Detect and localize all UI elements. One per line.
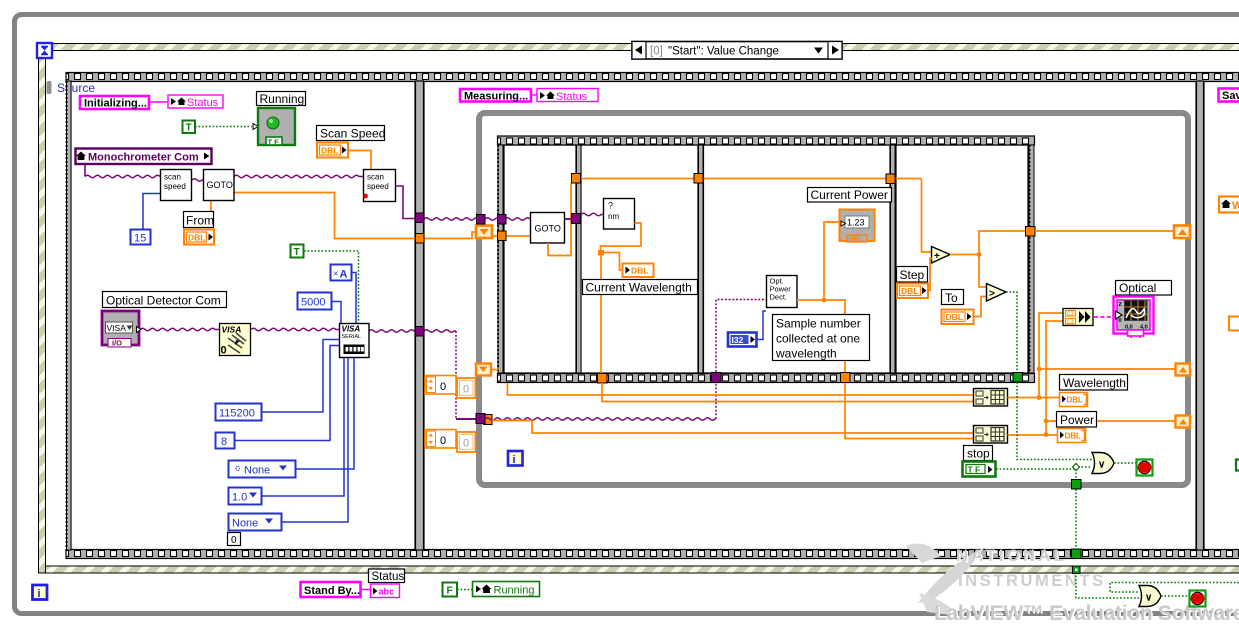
svg-text:VISA: VISA bbox=[107, 323, 127, 333]
wires inside inner loop: purple seq tunnel to GOTO2 bbox=[485, 218, 530, 221]
label Sample number bbox=[773, 315, 870, 361]
node OR 1 bbox=[1092, 453, 1114, 474]
wire GOTO2 orange out up to top rail bbox=[548, 183, 571, 256]
svg-text:INSTRUMENTS: INSTRUMENTS bbox=[958, 572, 1106, 590]
svg-text:DBL: DBL bbox=[188, 233, 205, 243]
control Optical Detector Com (VISA) bbox=[102, 311, 141, 348]
svg-text:VISA: VISA bbox=[222, 325, 242, 335]
svg-text:Optical Detector Com: Optical Detector Com bbox=[106, 294, 221, 308]
flat sequence inner: top band bbox=[498, 136, 1035, 145]
svg-text:T F: T F bbox=[968, 465, 981, 475]
svg-text:0: 0 bbox=[231, 535, 237, 546]
while loop (inner) bbox=[479, 113, 1188, 485]
wire Opt out to Current Power + down tunnel bbox=[797, 300, 845, 373]
svg-text:NATIONAL: NATIONAL bbox=[956, 547, 1067, 565]
wire GOTO 1 orange out to divider tunnel bbox=[234, 193, 416, 239]
wire T2 to VISA serial top bbox=[304, 251, 359, 323]
event selector label "[0] Start: Value Change" bbox=[632, 42, 842, 60]
indicator DBL (current wavelength) bbox=[623, 264, 654, 278]
flat sequence outer: divider 1 bbox=[416, 81, 424, 550]
local variable Status 1 bbox=[168, 95, 223, 109]
svg-text:DBL: DBL bbox=[1067, 396, 1084, 405]
node greater > bbox=[987, 284, 1007, 302]
tunnel orange divider3 top bbox=[886, 174, 895, 184]
control Step DBL bbox=[897, 284, 928, 299]
indicator Running LED bbox=[253, 108, 295, 147]
node build array 1 bbox=[974, 389, 1008, 407]
conditional terminal (inner loop stop) bbox=[1137, 460, 1153, 476]
control Monochrometer Com (VISA name) bbox=[76, 149, 212, 165]
label Optical bbox=[1116, 281, 1172, 296]
string constant Initializing... bbox=[80, 96, 149, 110]
control W... (clipped) bbox=[1219, 197, 1239, 213]
svg-text:Dect.: Dect. bbox=[770, 293, 788, 302]
flat sequence inner: frames A-D bbox=[504, 145, 1028, 373]
svg-text:>: > bbox=[989, 289, 995, 300]
green wire from frame3 to OR2 bbox=[1110, 583, 1239, 593]
wire pink squiggle 2 bbox=[531, 94, 537, 96]
wire to SR right 1 bbox=[1035, 230, 1176, 232]
node ? nm bbox=[604, 199, 635, 230]
iteration terminal i (outer loop) bbox=[33, 585, 48, 600]
numeric constant 115200 bbox=[216, 404, 262, 421]
wire build1 out trunk bbox=[1008, 397, 1060, 399]
tunnel green on event border bottom bbox=[1073, 566, 1081, 574]
svg-text:None: None bbox=[244, 465, 270, 477]
svg-text:scan: scan bbox=[164, 173, 181, 182]
iteration terminal i (inner loop) bbox=[508, 451, 523, 466]
wire OR1 to loop condition bbox=[1114, 462, 1136, 464]
flat sequence outer: film strip bottom band bbox=[66, 550, 1239, 559]
watermark NI eagle bbox=[906, 544, 985, 616]
top rail across frames bbox=[571, 178, 922, 180]
wire GOTO2 purple out to ?nm bbox=[565, 218, 572, 220]
svg-text:I32: I32 bbox=[732, 335, 744, 345]
indicator Power DBL array bbox=[1058, 429, 1086, 443]
string constant Savi(ng) bbox=[1219, 89, 1239, 103]
label Power bbox=[1057, 412, 1097, 428]
tunnel purple on divider (VISA top) bbox=[416, 213, 425, 223]
wire ?nm out to junction and DBL bbox=[601, 223, 642, 252]
svg-text:stop: stop bbox=[967, 447, 990, 461]
svg-text:Wavelength: Wavelength bbox=[1063, 376, 1126, 390]
wire add out bbox=[950, 254, 979, 256]
svg-text:Stand By...: Stand By... bbox=[304, 585, 360, 597]
tunnel orange seq bottom frame B bbox=[598, 374, 608, 384]
wire VISA ctl to VISA clear bbox=[140, 328, 219, 331]
local variable Running bbox=[473, 582, 540, 597]
wire tunnel right then down to loop purple tunnel bbox=[424, 330, 456, 333]
tunnel purple seq bottom frame C bbox=[712, 373, 722, 383]
flat sequence (outer) : frames bbox=[71, 81, 1239, 550]
wire VISA resource to scan speed 1 bbox=[84, 164, 86, 177]
svg-text:Sample number: Sample number bbox=[776, 317, 861, 331]
svg-text:∨: ∨ bbox=[1098, 460, 1105, 471]
wire 8 bbox=[235, 346, 339, 441]
numeric constant 8 bbox=[216, 433, 235, 449]
wire 1.0 bbox=[262, 358, 344, 496]
svg-text:Current Power: Current Power bbox=[811, 188, 888, 202]
label stop bbox=[964, 446, 993, 461]
svg-text:1.0: 1.0 bbox=[232, 492, 247, 504]
wire orange SR1 to GOTO2 bbox=[492, 235, 530, 237]
svg-text:Scan Speed: Scan Speed bbox=[320, 127, 385, 141]
flat sequence outer: left zigzag edge bbox=[67, 81, 72, 550]
boolean constant T bbox=[183, 121, 196, 134]
control stop TF bbox=[963, 462, 996, 477]
enum constant None (flow) bbox=[229, 514, 282, 531]
node bundle bbox=[1063, 309, 1093, 326]
wire tunnel to inner loop tunnel (purple) bbox=[424, 218, 479, 221]
node scan speed 2 bbox=[363, 170, 395, 202]
svg-text:DBL: DBL bbox=[631, 266, 648, 276]
svg-text:T: T bbox=[186, 123, 192, 134]
svg-text:0: 0 bbox=[440, 381, 446, 393]
svg-text:×: × bbox=[333, 269, 338, 279]
svg-text:C3: C3 bbox=[1067, 312, 1074, 318]
tunnel green on outer seq bottom bbox=[1072, 549, 1082, 559]
svg-text:"Start": Value Change: "Start": Value Change bbox=[668, 46, 779, 58]
control From DBL bbox=[184, 230, 214, 245]
boolean constant F bbox=[443, 583, 458, 597]
watermark NATIONAL INSTRUMENTS bbox=[956, 547, 1136, 592]
label Scan Speed bbox=[317, 126, 386, 141]
shift register SR right 1 (up arrow) bbox=[1174, 226, 1190, 239]
green wire down through loop tunnel bbox=[1075, 469, 1077, 480]
svg-text:Optical: Optical bbox=[1119, 281, 1156, 295]
tunnel orange divider2 top bbox=[694, 174, 703, 184]
wire Scan Speed DBL down to scan speed 2 bbox=[348, 151, 371, 170]
svg-text:W: W bbox=[1232, 200, 1239, 212]
svg-text:Source: Source bbox=[57, 81, 95, 95]
svg-text:Initializing...: Initializing... bbox=[84, 98, 147, 110]
wire parity None bbox=[296, 358, 354, 469]
shift register SR right 2 bbox=[1176, 364, 1191, 376]
label Current Power bbox=[808, 188, 892, 203]
label From bbox=[184, 212, 215, 228]
svg-text:Status: Status bbox=[372, 571, 405, 583]
wire VISA clear to VISA serial bbox=[251, 328, 339, 331]
svg-text:0: 0 bbox=[221, 345, 227, 357]
tunnel green on inner loop bottom bbox=[1072, 480, 1082, 490]
node build array 2 bbox=[974, 426, 1008, 444]
svg-text:SERIAL: SERIAL bbox=[342, 334, 362, 340]
svg-text:Current Wavelength: Current Wavelength bbox=[586, 281, 692, 295]
label Wavelength bbox=[1060, 375, 1128, 391]
control I32 bbox=[728, 333, 757, 347]
array constant 0 (second) bbox=[425, 430, 456, 449]
label To bbox=[942, 290, 964, 306]
wire scan speed 1 to GOTO 1 bbox=[192, 179, 203, 182]
svg-text:collected at one: collected at one bbox=[776, 332, 860, 346]
wire xA out into VISA serial bbox=[352, 273, 356, 324]
node GOTO 2 bbox=[531, 213, 565, 244]
tunnel orange seq bottom frame C bbox=[841, 373, 851, 383]
svg-text:From: From bbox=[186, 214, 214, 228]
svg-text:speed: speed bbox=[367, 182, 389, 191]
numeric constant 5000 bbox=[298, 293, 332, 310]
wire From DBL to GOTO 1 bbox=[210, 201, 212, 212]
svg-text:0: 0 bbox=[463, 384, 469, 396]
indicator Optical XY graph bbox=[1114, 297, 1154, 339]
wire T to Running LED bbox=[195, 126, 252, 128]
boolean constant T 2 bbox=[291, 245, 304, 259]
svg-text:Measuring...: Measuring... bbox=[464, 91, 528, 103]
label Optical Detector Com bbox=[103, 292, 227, 308]
wire Step to add bbox=[928, 259, 932, 291]
flat sequence inner: divider 3 bbox=[891, 145, 896, 373]
green wire greater-out down to OR1 bbox=[1017, 382, 1092, 460]
svg-text:DBL: DBL bbox=[849, 237, 864, 244]
tunnel orange seq right edge bbox=[1026, 227, 1036, 237]
wire loop tunnel low to build array 2 bbox=[492, 421, 974, 434]
svg-text:™: ™ bbox=[1128, 566, 1136, 575]
conditional terminal (outer loop stop) bbox=[1190, 591, 1206, 607]
wire To to greater bbox=[974, 297, 986, 317]
svg-text:F: F bbox=[447, 586, 453, 597]
label Running bbox=[257, 92, 306, 107]
tunnel purple on inner loop left bbox=[477, 215, 486, 225]
constant orange (clipped) bbox=[1229, 317, 1239, 331]
wire pink squiggle 3 bbox=[361, 589, 372, 591]
tunnel purple divider1 bbox=[572, 214, 581, 224]
svg-text:Status: Status bbox=[556, 91, 588, 103]
node VISA configure serial port bbox=[340, 324, 370, 358]
svg-text:None: None bbox=[232, 518, 258, 530]
indicator Current Power icon bbox=[840, 210, 875, 244]
flat sequence inner: divider 2 bbox=[699, 145, 704, 373]
enum constant None (parity) bbox=[229, 461, 296, 478]
svg-text:i: i bbox=[38, 588, 41, 600]
array constant 0 (first) bbox=[425, 376, 456, 395]
svg-text:5000: 5000 bbox=[301, 297, 325, 309]
svg-text:nm: nm bbox=[608, 212, 619, 221]
svg-text:0: 0 bbox=[1119, 318, 1122, 324]
shift register SR1 left (down arrow) bbox=[476, 226, 492, 239]
wire pink squiggle bbox=[150, 101, 168, 103]
svg-text:[0]: [0] bbox=[650, 46, 663, 58]
node GOTO 1 bbox=[204, 170, 235, 201]
node scan speed 1 bbox=[161, 170, 192, 201]
svg-text:+: + bbox=[934, 251, 940, 262]
svg-text:1.23: 1.23 bbox=[847, 218, 865, 228]
svg-text:speed: speed bbox=[164, 182, 186, 191]
svg-text:C3: C3 bbox=[1067, 320, 1074, 326]
svg-text:?: ? bbox=[608, 201, 613, 211]
svg-text:Status: Status bbox=[187, 97, 219, 109]
svg-text:Step: Step bbox=[900, 268, 925, 282]
svg-text:DBL: DBL bbox=[321, 146, 338, 156]
numeric constant 0 bbox=[228, 533, 241, 547]
svg-text:A: A bbox=[340, 269, 348, 281]
wire greater out green bbox=[1006, 292, 1017, 373]
svg-text:scan: scan bbox=[367, 173, 384, 182]
svg-text:∨: ∨ bbox=[1145, 593, 1152, 604]
svg-text:Savi: Savi bbox=[1222, 90, 1239, 102]
purple wire below seq to frame C tunnel bbox=[485, 418, 716, 421]
wire bundle to XY graph (pink dashed) bbox=[1094, 316, 1113, 318]
svg-text:0: 0 bbox=[463, 438, 469, 450]
wire OR2 to outer loop condition bbox=[1161, 595, 1188, 597]
svg-text:VISA: VISA bbox=[342, 325, 361, 334]
svg-text:abc: abc bbox=[379, 587, 395, 597]
svg-text:wavelength: wavelength bbox=[775, 347, 837, 361]
tunnel orange divider1 top bbox=[572, 174, 581, 184]
shift register SR2 left (down arrow) bbox=[476, 364, 491, 376]
svg-text:DBL: DBL bbox=[1065, 432, 1082, 441]
wire SR2 out under sequence to build array 1 bbox=[491, 369, 499, 371]
indicator Wavelength DBL array bbox=[1060, 393, 1088, 407]
wire I32 to Opt node bbox=[757, 311, 767, 340]
wire flow None bbox=[282, 358, 348, 522]
wire 5000 into VISA serial bbox=[332, 302, 341, 324]
label Status bbox=[369, 569, 405, 583]
shift register SR right 3 bbox=[1176, 416, 1191, 428]
node add + bbox=[932, 247, 951, 264]
flat sequence inner: right zigzag edge bbox=[1029, 145, 1034, 373]
flat sequence outer: divider 2 bbox=[1197, 81, 1204, 550]
svg-text:T: T bbox=[294, 247, 300, 258]
svg-text:115200: 115200 bbox=[219, 408, 255, 420]
node VISA clear bbox=[220, 324, 251, 357]
string constant Stand By... bbox=[301, 582, 361, 597]
svg-text:Monochrometer Com: Monochrometer Com bbox=[88, 152, 199, 164]
wire GOTO 1 to scan speed 2 bbox=[234, 175, 363, 178]
tunnel purple on inner loop left low bbox=[476, 414, 485, 424]
tunnel orange half on inner loop left low bbox=[484, 415, 493, 425]
svg-text:2: 2 bbox=[1119, 302, 1122, 308]
svg-text:GOTO: GOTO bbox=[535, 224, 561, 234]
local variable abc (Status) bbox=[371, 584, 400, 598]
svg-text:GOTO: GOTO bbox=[207, 180, 233, 190]
wire 115200 bbox=[262, 340, 339, 413]
tunnel orange on divider (speed) bbox=[416, 234, 425, 244]
event structure timeout (hourglass) terminal bbox=[37, 43, 52, 58]
tunnel purple on divider (VISA bottom) bbox=[416, 327, 425, 337]
flat sequence inner: divider 1 bbox=[577, 145, 582, 373]
node Opt Power Dect bbox=[767, 276, 798, 308]
svg-text:i: i bbox=[513, 454, 516, 466]
svg-text:I/O: I/O bbox=[112, 339, 122, 348]
svg-text:Power: Power bbox=[1060, 413, 1094, 427]
control To DBL bbox=[942, 310, 974, 325]
svg-text:To: To bbox=[945, 291, 958, 305]
string constant Measuring... bbox=[460, 89, 531, 103]
wire build2 out trunk bbox=[1008, 434, 1058, 436]
enum constant 1.0 bbox=[229, 488, 262, 505]
boolean local (clipped) bbox=[1236, 460, 1239, 471]
node multiply xA bbox=[331, 265, 352, 281]
watermark LabVIEW Evaluation Software bbox=[934, 602, 1239, 625]
svg-text:Running: Running bbox=[260, 92, 305, 106]
svg-text:15: 15 bbox=[134, 233, 146, 245]
tunnel purple on inner seq left bbox=[498, 215, 507, 225]
wire VISA serial to divider tunnel bbox=[369, 330, 415, 333]
green wire stop TF to OR1 bbox=[996, 467, 1092, 469]
node SOURCE free label bbox=[47, 81, 96, 95]
flat sequence outer: film strip top band bbox=[66, 73, 1239, 82]
flat sequence inner: left zigzag edge bbox=[498, 145, 503, 373]
svg-text:T F: T F bbox=[268, 138, 280, 147]
flat sequence inner: bottom band bbox=[498, 374, 1035, 383]
wire frame B tunnel down to build array 1 input 2 bbox=[602, 383, 974, 402]
wire tunnel to shift register SR1 bbox=[424, 232, 477, 239]
tunnel green seq bottom frame D bbox=[1013, 373, 1023, 383]
label Step bbox=[897, 267, 928, 283]
numeric constant 15 bbox=[131, 230, 151, 245]
node OR 2 bbox=[1139, 586, 1161, 607]
svg-text:DBL: DBL bbox=[901, 286, 918, 296]
wire frame C tunnel down to build array 2 input 2 bbox=[845, 383, 974, 439]
wire F to Running local bbox=[457, 589, 472, 591]
local variable Status 2 bbox=[537, 89, 598, 104]
green wire bottom to OR2 bbox=[1076, 572, 1139, 598]
label Current Wavelength bbox=[583, 280, 698, 295]
svg-text:8: 8 bbox=[221, 436, 227, 448]
svg-text:0: 0 bbox=[440, 435, 446, 447]
tunnel orange on inner seq left bbox=[498, 231, 507, 241]
svg-text:Running: Running bbox=[494, 585, 535, 597]
svg-text:DBL: DBL bbox=[946, 312, 963, 322]
control Scan Speed DBL bbox=[317, 143, 348, 158]
purple wire up to Opt node bbox=[716, 300, 766, 373]
wire scan speed 2 to divider tunnel bbox=[396, 186, 417, 219]
wire 15 to scan speed 1 bbox=[143, 194, 160, 230]
